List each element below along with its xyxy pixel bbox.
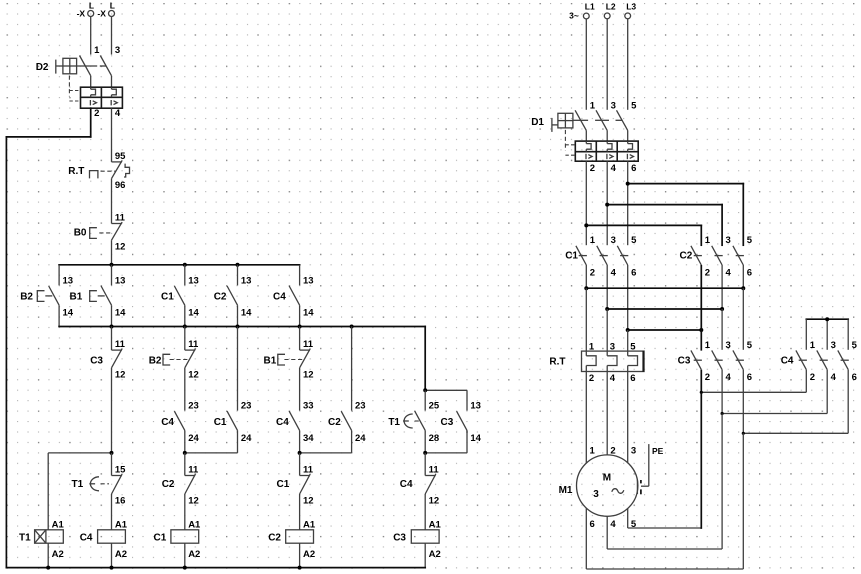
junction C2-4	[720, 307, 724, 311]
wire bottom bus	[6, 567, 425, 569]
svg-text:4: 4	[831, 372, 837, 383]
junction bus2 / C2 column	[236, 325, 240, 329]
wire phase drops to R.T	[586, 288, 627, 351]
svg-text:D1: D1	[531, 117, 544, 128]
svg-text:3: 3	[726, 235, 731, 246]
start pushbutton B2 13-14	[20, 265, 74, 327]
svg-text:5: 5	[747, 235, 753, 246]
svg-text:4: 4	[726, 372, 732, 383]
svg-text:C3: C3	[441, 417, 454, 428]
svg-text:5: 5	[630, 342, 636, 353]
contactor C2 power contacts 1-2 3-4 5-6	[680, 235, 753, 330]
svg-text:C2: C2	[214, 292, 227, 303]
junction link / C3 coil column	[423, 451, 427, 455]
junction bottom bus / T1 coil	[46, 566, 50, 570]
svg-text:B2: B2	[149, 356, 162, 367]
svg-text:5: 5	[747, 340, 753, 351]
svg-text:4: 4	[611, 163, 617, 174]
svg-text:3: 3	[631, 445, 636, 456]
svg-text:11: 11	[303, 465, 314, 476]
svg-text:T1: T1	[388, 417, 400, 428]
svg-text:3: 3	[831, 340, 836, 351]
auxiliary contact C4 33-34	[276, 401, 314, 453]
svg-text:11: 11	[429, 465, 440, 476]
svg-text:14: 14	[188, 308, 199, 319]
svg-text:33: 33	[303, 401, 314, 412]
svg-text:2: 2	[589, 373, 594, 384]
svg-text:C1: C1	[214, 417, 227, 428]
auxiliary contact C4 23-24	[161, 401, 199, 453]
svg-text:12: 12	[115, 242, 126, 253]
svg-text:A2: A2	[52, 549, 64, 560]
junction bottom bus / C4 coil	[110, 566, 114, 570]
svg-text:13: 13	[470, 401, 481, 412]
contactor coil C1	[154, 519, 202, 567]
junction C2-2	[699, 328, 703, 332]
contactor C1 power contacts 1-2 3-4 5-6	[565, 235, 637, 330]
wire D2 pin4 down to R.T	[111, 108, 113, 162]
junction C1-2	[584, 286, 588, 290]
svg-text:L1: L1	[585, 1, 595, 11]
junction link / C1 coil column	[183, 451, 187, 455]
junction C4 bridge	[825, 317, 829, 321]
wire C3-6 to C4-6	[743, 432, 848, 434]
timer contact T1 25-28	[388, 390, 440, 453]
junction bus2 / C4 column	[298, 325, 302, 329]
svg-text:12: 12	[188, 496, 199, 507]
svg-text:14: 14	[115, 308, 126, 319]
svg-text:5: 5	[631, 235, 637, 246]
junction C3-6 motor 6	[742, 432, 745, 435]
svg-text:3: 3	[611, 100, 616, 111]
contactor coil C3	[393, 519, 441, 567]
svg-text:4: 4	[610, 373, 616, 384]
thermal relay contact R.T 95-96	[68, 151, 129, 196]
svg-text:6: 6	[630, 373, 635, 384]
svg-text:3~: 3~	[569, 10, 579, 20]
auxiliary contact C2 13-14	[214, 265, 252, 327]
svg-text:1: 1	[590, 100, 596, 111]
junction T1 branch	[423, 388, 427, 392]
svg-text:13: 13	[241, 275, 252, 286]
timer coil T1	[19, 519, 64, 567]
svg-text:11: 11	[303, 339, 314, 350]
svg-text:95: 95	[115, 151, 126, 162]
wire phase L2 drop	[606, 161, 608, 245]
svg-text:1: 1	[590, 235, 596, 246]
wire C2 outputs to C3	[701, 266, 743, 350]
svg-text:2: 2	[590, 267, 595, 278]
svg-text:1: 1	[589, 342, 595, 353]
svg-text:14: 14	[470, 433, 481, 444]
wire bus node 1	[59, 264, 300, 266]
terminal -X L (left phase b)	[97, 1, 115, 55]
auxiliary contact C3 13-14	[425, 401, 481, 453]
svg-text:4: 4	[115, 108, 121, 119]
timer contact T1 15-16 (NC)	[72, 453, 127, 530]
junction bus1 / main	[110, 263, 114, 267]
svg-text:C4: C4	[781, 355, 794, 366]
svg-text:A1: A1	[115, 519, 128, 530]
svg-text:T1: T1	[72, 479, 84, 490]
wire D2 pin2 to left rail	[6, 108, 90, 567]
svg-text:1: 1	[705, 235, 711, 246]
svg-text:12: 12	[303, 369, 314, 380]
svg-text:3: 3	[611, 235, 616, 246]
stop pushbutton B1 11-12 (NC)	[264, 327, 314, 411]
wire R.T to motor	[586, 372, 636, 464]
svg-text:4: 4	[726, 267, 732, 278]
svg-text:2: 2	[705, 267, 710, 278]
contactor C3 power contacts 1-2 3-4 5-6	[678, 340, 753, 434]
svg-text:C3: C3	[90, 356, 103, 367]
svg-text:A2: A2	[115, 549, 127, 560]
svg-text:1: 1	[705, 340, 711, 351]
svg-text:13: 13	[303, 275, 314, 286]
svg-text:6: 6	[747, 372, 752, 383]
auxiliary contact C2 11-12 (NC)	[162, 453, 199, 530]
svg-text:11: 11	[115, 339, 126, 350]
svg-text:2: 2	[810, 372, 815, 383]
wire C1-2 to C2-6	[586, 287, 743, 289]
svg-text:4: 4	[611, 267, 617, 278]
svg-text:R.T: R.T	[68, 166, 84, 177]
svg-text:L: L	[110, 1, 115, 11]
contactor C4 power contacts 1-2 3-4 5-6	[781, 340, 858, 434]
svg-text:A2: A2	[188, 549, 200, 560]
svg-text:A2: A2	[429, 549, 441, 560]
svg-text:2: 2	[590, 163, 595, 174]
auxiliary contact C2 23-24	[328, 327, 366, 453]
svg-text:5: 5	[852, 340, 858, 351]
svg-text:PE: PE	[652, 446, 664, 456]
junction C3-2 motor 5	[700, 391, 703, 394]
svg-text:6: 6	[631, 267, 636, 278]
svg-text:11: 11	[188, 339, 199, 350]
auxiliary contact C4 13-14	[273, 265, 314, 327]
svg-text:1: 1	[94, 45, 100, 56]
junction bus2 / C2-23 column	[350, 325, 354, 329]
svg-text:12: 12	[429, 496, 440, 507]
terminal L1 3~	[569, 1, 595, 110]
wire tap L1 to C2-1	[586, 225, 701, 245]
svg-text:6: 6	[631, 163, 636, 174]
svg-text:6: 6	[747, 267, 752, 278]
svg-text:14: 14	[241, 308, 252, 319]
svg-text:C1: C1	[161, 292, 174, 303]
svg-text:23: 23	[188, 401, 199, 412]
svg-text:3: 3	[610, 342, 615, 353]
terminal -X L (left phase a)	[77, 1, 95, 55]
svg-text:5: 5	[631, 100, 637, 111]
svg-text:C4: C4	[400, 479, 413, 490]
start pushbutton B1 13-14	[70, 265, 127, 327]
svg-text:96: 96	[115, 180, 126, 191]
svg-text:D2: D2	[36, 62, 49, 73]
svg-text:6: 6	[852, 372, 857, 383]
svg-text:1: 1	[590, 445, 596, 456]
stop pushbutton B0 11-12	[74, 196, 126, 265]
svg-text:B1: B1	[264, 356, 277, 367]
wire C1-6 to C2-2	[628, 329, 702, 331]
contactor coil C4	[80, 519, 128, 567]
svg-text:6: 6	[590, 519, 595, 530]
svg-text:B1: B1	[70, 292, 83, 303]
svg-text:C3: C3	[393, 532, 406, 543]
svg-text:3: 3	[593, 489, 599, 500]
svg-text:12: 12	[303, 496, 314, 507]
wire link T1 coil branch	[48, 453, 111, 530]
svg-text:C2: C2	[680, 251, 693, 262]
svg-text:C2: C2	[162, 479, 175, 490]
terminal L2	[604, 1, 616, 110]
svg-text:C1: C1	[154, 532, 167, 543]
circuit breaker D1	[531, 100, 638, 174]
protective earth PE	[637, 444, 663, 494]
svg-text:24: 24	[355, 433, 366, 444]
svg-text:L3: L3	[626, 1, 636, 11]
svg-text:C3: C3	[678, 355, 691, 366]
svg-text:A1: A1	[52, 519, 65, 530]
svg-text:-X: -X	[97, 9, 106, 19]
wire C4 star bridge	[806, 319, 848, 350]
svg-text:4: 4	[610, 519, 616, 530]
junction bus1 / C2 column	[236, 263, 240, 267]
svg-text:15: 15	[115, 465, 126, 476]
svg-text:C4: C4	[80, 532, 93, 543]
svg-text:A2: A2	[303, 549, 315, 560]
svg-text:A1: A1	[303, 519, 316, 530]
junction bus1 / C1 column	[183, 263, 187, 267]
svg-text:C4: C4	[273, 292, 286, 303]
svg-text:12: 12	[115, 369, 126, 380]
svg-text:L: L	[89, 1, 94, 11]
wire motor 5 to C3-2	[628, 392, 702, 528]
terminal L3	[625, 1, 637, 110]
svg-text:23: 23	[241, 401, 252, 412]
svg-text:C1: C1	[565, 251, 578, 262]
svg-text:24: 24	[188, 433, 199, 444]
svg-text:24: 24	[241, 433, 252, 444]
auxiliary contact C1 13-14	[161, 265, 199, 327]
junction tap L3	[626, 182, 630, 186]
svg-text:R.T: R.T	[549, 356, 565, 367]
svg-text:B0: B0	[74, 228, 87, 239]
wire phase L3 drop	[627, 161, 629, 245]
junction link / C2 coil column	[298, 451, 302, 455]
svg-text:M1: M1	[559, 485, 573, 496]
junction bus2 / main	[110, 325, 114, 329]
junction bus2 / C1 column	[183, 325, 187, 329]
svg-text:C1: C1	[277, 479, 290, 490]
svg-text:A1: A1	[188, 519, 201, 530]
circuit breaker D2	[36, 45, 123, 119]
svg-text:A1: A1	[429, 519, 442, 530]
svg-text:M: M	[603, 472, 611, 483]
svg-text:C4: C4	[276, 417, 289, 428]
junction tap L2	[605, 203, 609, 207]
stop pushbutton B2 11-12 (NC)	[149, 327, 199, 411]
svg-text:C2: C2	[268, 532, 281, 543]
svg-text:12: 12	[188, 369, 199, 380]
auxiliary contact C4 11-12 (NC)	[400, 453, 440, 530]
junction bottom bus / C2 coil	[298, 566, 302, 570]
svg-text:3: 3	[726, 340, 731, 351]
thermal overload relay R.T	[549, 342, 644, 385]
svg-text:14: 14	[63, 308, 74, 319]
svg-text:L2: L2	[606, 1, 616, 11]
svg-text:13: 13	[115, 275, 126, 286]
svg-text:B2: B2	[20, 292, 33, 303]
svg-text:13: 13	[63, 275, 74, 286]
svg-text:1: 1	[810, 340, 816, 351]
wire C3-2 to C4-2	[701, 391, 806, 393]
auxiliary contact C3 11-12 (NC)	[90, 327, 125, 453]
svg-text:16: 16	[115, 496, 126, 507]
auxiliary contact C1 11-12 (NC)	[277, 453, 314, 530]
svg-text:14: 14	[303, 308, 314, 319]
svg-text:11: 11	[115, 213, 126, 224]
junction C1-4	[605, 307, 609, 311]
junction C1-6	[626, 328, 630, 332]
junction C3-4 motor 4	[721, 412, 724, 415]
wire C1-4 to C2-4	[607, 308, 722, 310]
svg-text:3: 3	[115, 45, 120, 56]
svg-text:34: 34	[303, 433, 314, 444]
wire motor 4 to C3-4	[607, 414, 722, 550]
wire tap L2 to C2-3	[607, 205, 722, 246]
svg-text:13: 13	[188, 275, 199, 286]
wire link C4-34 to C2-24	[300, 452, 352, 454]
wire tap L3 to C2-5	[628, 184, 744, 246]
svg-text:2: 2	[94, 108, 99, 119]
wire C3-4 to C4-4	[722, 413, 827, 415]
svg-text:T1: T1	[19, 532, 31, 543]
contactor coil C2	[268, 519, 316, 567]
svg-text:25: 25	[429, 401, 440, 412]
junction bottom bus / C1 coil	[183, 566, 187, 570]
svg-text:23: 23	[355, 401, 366, 412]
wire bus node 2	[59, 327, 467, 411]
svg-text:C2: C2	[328, 417, 341, 428]
svg-text:2: 2	[705, 372, 710, 383]
junction C2-6	[741, 286, 745, 290]
junction link / main	[110, 451, 114, 455]
svg-text:28: 28	[429, 433, 440, 444]
svg-text:C4: C4	[161, 417, 174, 428]
wire motor 6 to C3-6	[586, 433, 743, 569]
svg-text:-X: -X	[77, 9, 86, 19]
wire phase L1 drop	[585, 161, 587, 245]
svg-text:11: 11	[188, 465, 199, 476]
auxiliary contact C1 23-24	[214, 327, 252, 453]
junction tap L1	[584, 223, 588, 227]
wire link C4-24 to C1-24	[185, 452, 238, 454]
motor M1	[559, 455, 638, 530]
